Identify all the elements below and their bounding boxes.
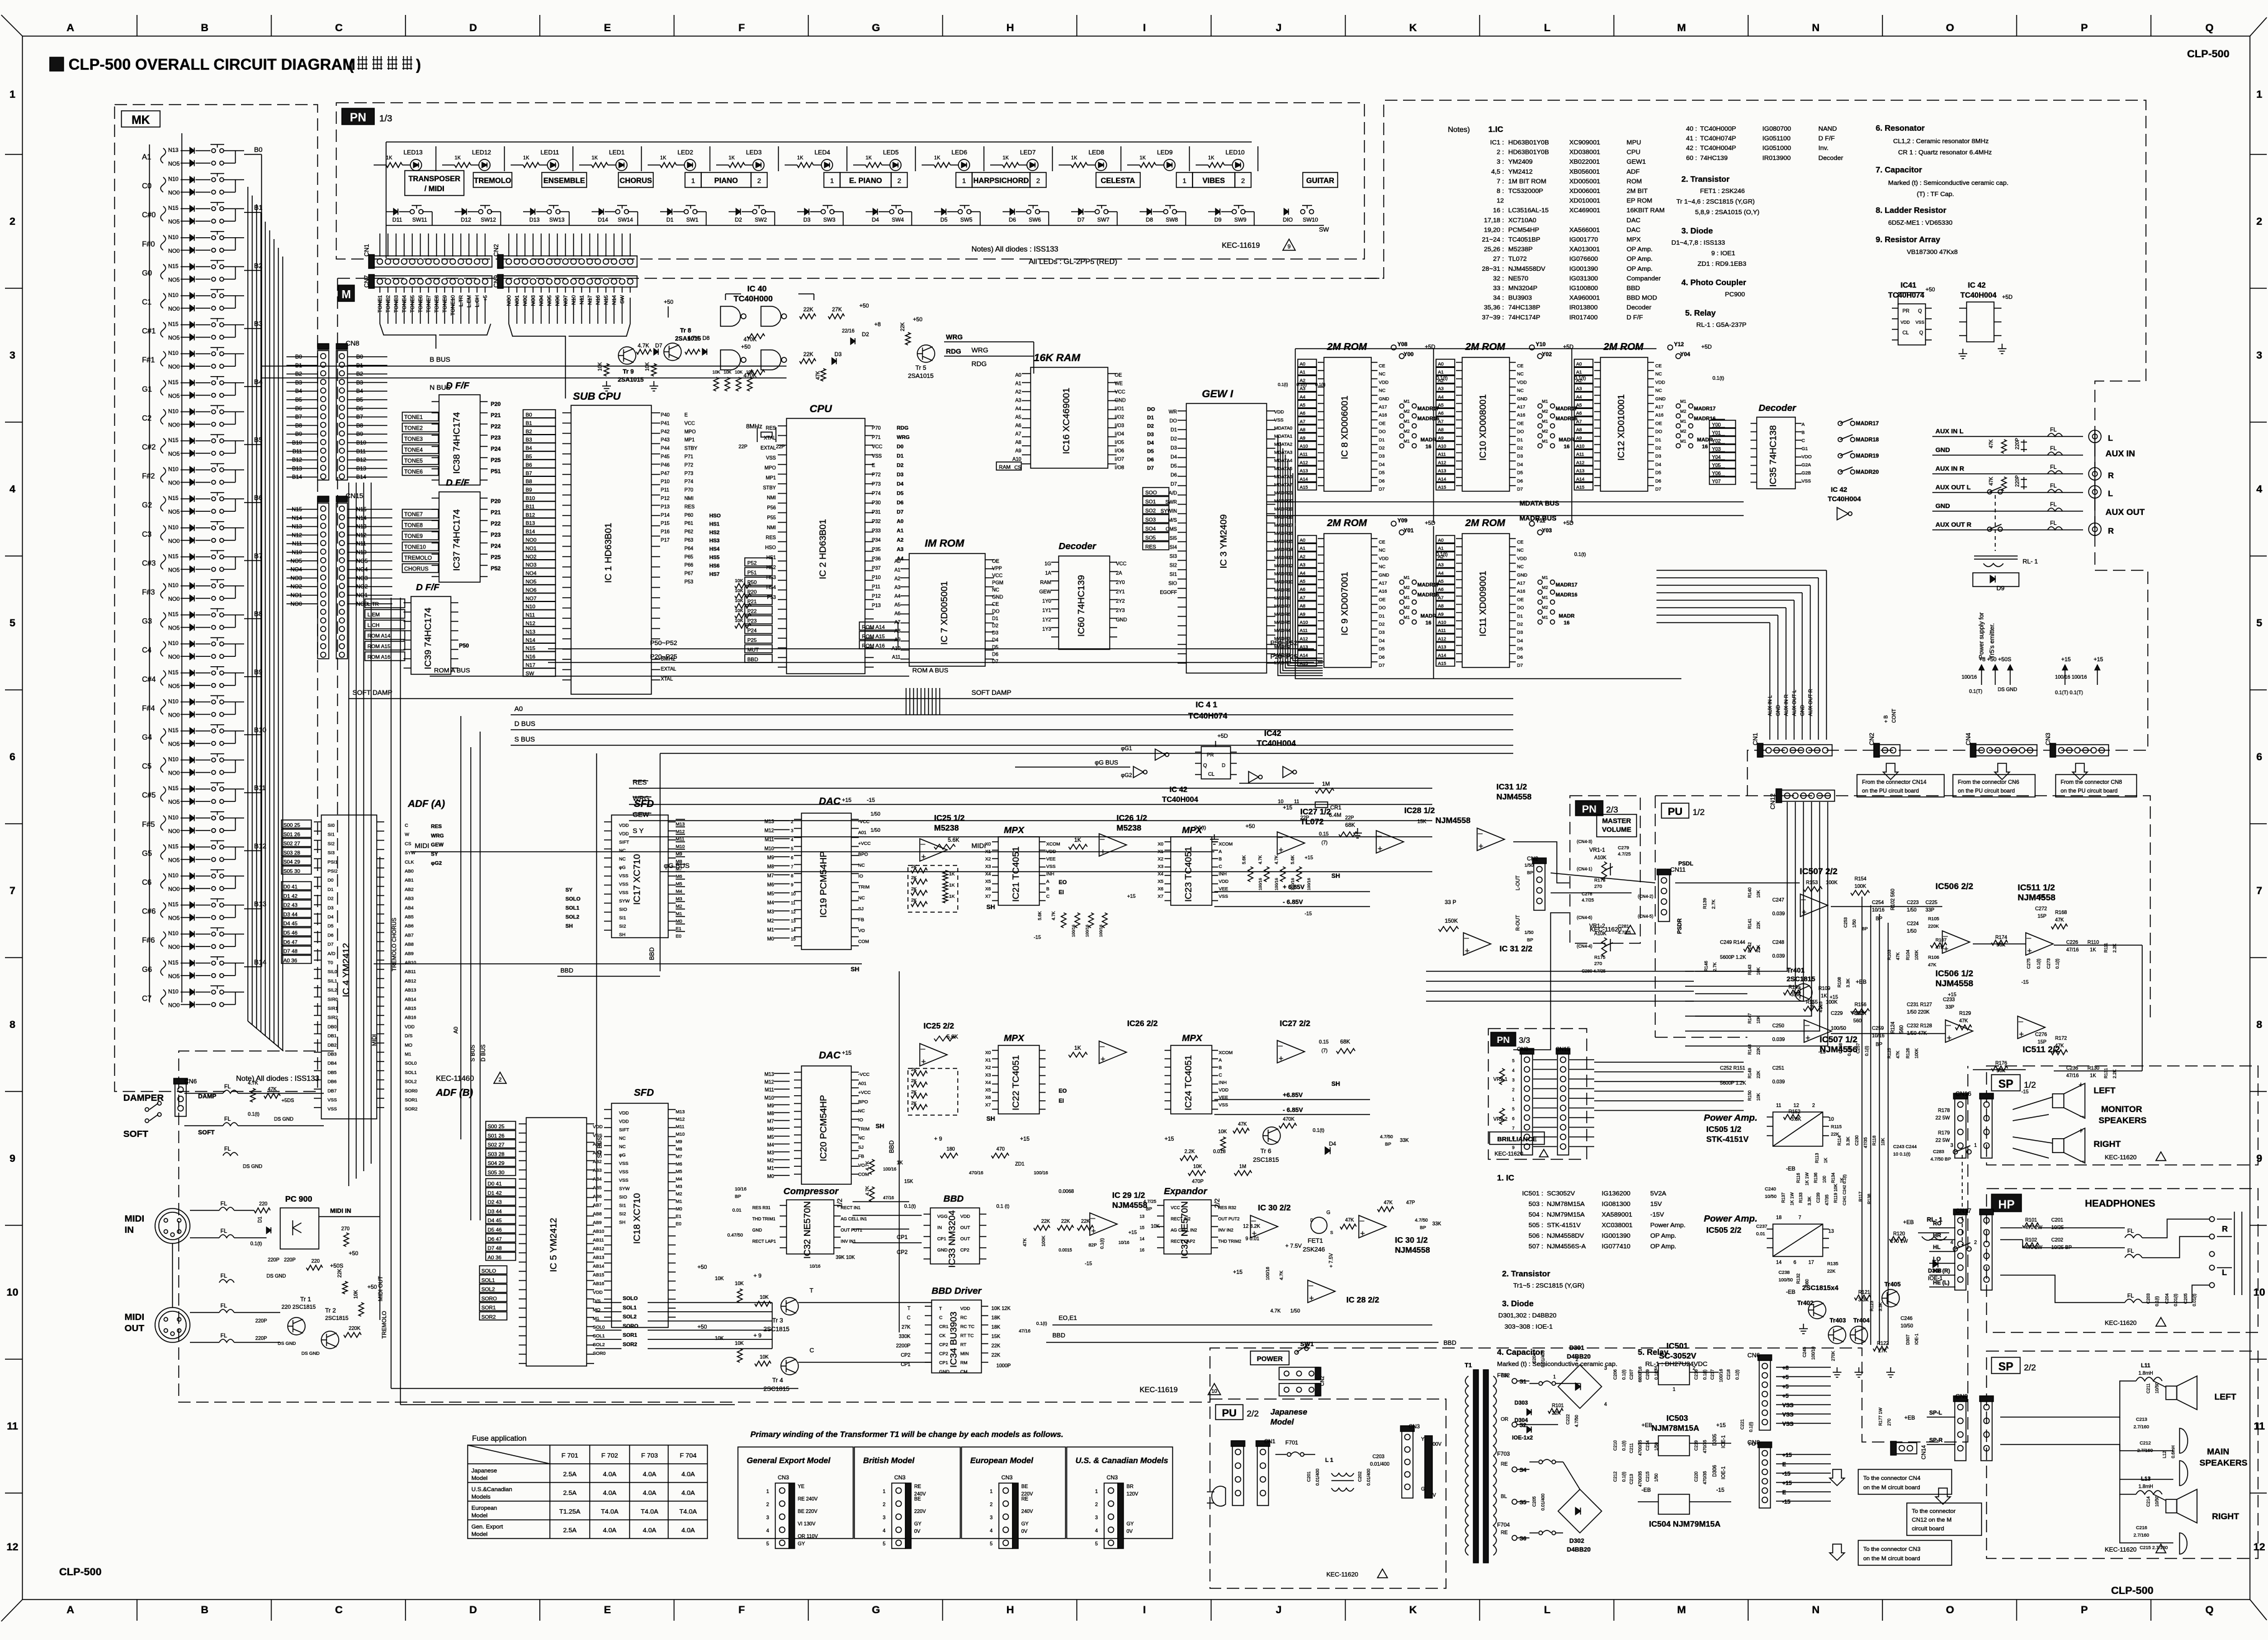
- svg-text:VSS: VSS: [1782, 1411, 1793, 1418]
- svg-text:D7 48: D7 48: [283, 948, 298, 954]
- svg-text:A9: A9: [1438, 611, 1443, 617]
- svg-text:MDATA2: MDATA2: [1274, 441, 1292, 447]
- svg-text:CLP-500: CLP-500: [59, 1566, 102, 1578]
- svg-text:M0: M0: [676, 918, 682, 924]
- svg-text:D3 44: D3 44: [488, 1208, 502, 1214]
- svg-text:DB1: DB1: [328, 1033, 337, 1039]
- svg-text:6: 6: [1512, 1117, 1514, 1121]
- svg-text:0.1(t): 0.1(t): [1574, 552, 1586, 557]
- svg-text:A11: A11: [1300, 451, 1308, 457]
- svg-text:–: –: [1377, 831, 1382, 840]
- svg-text:C258: C258: [1839, 1043, 1843, 1053]
- svg-text:KEC-11620: KEC-11620: [1590, 926, 1622, 933]
- svg-text:P34: P34: [872, 537, 881, 543]
- svg-text:R107: R107: [1935, 937, 1947, 943]
- svg-text:DB7: DB7: [328, 1088, 337, 1093]
- svg-text:CP2: CP2: [939, 1342, 948, 1347]
- svg-text:R143: R143: [1748, 964, 1752, 975]
- svg-text:2K: 2K: [911, 875, 917, 880]
- svg-text:CELESTA: CELESTA: [1100, 176, 1135, 185]
- svg-text:RL-1 : G5A-237P: RL-1 : G5A-237P: [1696, 321, 1747, 329]
- svg-text:P16: P16: [661, 529, 670, 535]
- svg-text:FB: FB: [858, 917, 864, 923]
- svg-text:100K: 100K: [1855, 884, 1866, 889]
- svg-text:OE: OE: [1379, 420, 1386, 426]
- svg-text:470/35: 470/35: [1703, 1471, 1708, 1484]
- svg-text:A11: A11: [892, 654, 900, 660]
- svg-text:7: 7: [2256, 885, 2262, 897]
- svg-text:M12: M12: [676, 1116, 685, 1122]
- svg-text:A17: A17: [1379, 404, 1387, 410]
- svg-text:NC: NC: [858, 1135, 865, 1141]
- svg-text:TONE6: TONE6: [404, 469, 423, 475]
- svg-text:5: 5: [883, 1541, 886, 1547]
- svg-text:A15: A15: [1576, 484, 1584, 490]
- svg-text:A0: A0: [514, 705, 522, 713]
- svg-text:2SC1815: 2SC1815: [1787, 976, 1815, 983]
- svg-text:–: –: [1100, 834, 1105, 843]
- svg-text:C: C: [1046, 893, 1050, 899]
- svg-text:D3: D3: [1517, 629, 1523, 635]
- svg-text:E0: E0: [676, 1221, 681, 1227]
- connector CN9: [1955, 1401, 1966, 1461]
- svg-text:DO: DO: [1169, 418, 1177, 424]
- svg-text:C203: C203: [1373, 1454, 1385, 1459]
- svg-text:D6 47: D6 47: [283, 939, 298, 945]
- svg-text:Power Amp.: Power Amp.: [1704, 1214, 1757, 1224]
- svg-text:OP Amp.: OP Amp.: [1627, 255, 1653, 263]
- svg-text:0.1(t): 0.1(t): [1622, 1370, 1627, 1380]
- svg-text:S03 28: S03 28: [488, 1151, 504, 1157]
- svg-text:Y01: Y01: [1404, 527, 1414, 534]
- svg-text:C246: C246: [1901, 1316, 1913, 1321]
- svg-text:RIGHT: RIGHT: [2212, 1511, 2239, 1521]
- svg-text:VSS: VSS: [619, 1169, 628, 1175]
- svg-text:VDD: VDD: [1274, 409, 1284, 415]
- svg-text:10K: 10K: [735, 1341, 744, 1346]
- svg-text:0.039: 0.039: [1772, 1037, 1785, 1042]
- svg-text:A11: A11: [1438, 628, 1446, 633]
- svg-text:12: 12: [1793, 1103, 1799, 1108]
- svg-text:SW10: SW10: [1303, 217, 1318, 223]
- svg-text:NMI: NMI: [767, 525, 776, 530]
- svg-text:SW6: SW6: [1029, 217, 1041, 223]
- svg-text:M12: M12: [764, 1080, 774, 1085]
- svg-text:A13: A13: [1576, 468, 1584, 474]
- svg-text:DAC: DAC: [1627, 226, 1641, 233]
- svg-text:13: 13: [1828, 1228, 1834, 1234]
- svg-text:7: 7: [1798, 1215, 1802, 1220]
- svg-text:XCOM: XCOM: [1219, 1050, 1233, 1055]
- svg-text:F 702: F 702: [602, 1452, 618, 1459]
- svg-text:2/2: 2/2: [1247, 1408, 1259, 1418]
- svg-text:C249 R144: C249 R144: [1720, 940, 1746, 945]
- svg-text:270: 270: [341, 1226, 350, 1232]
- svg-text:0.1(t): 0.1(t): [1749, 1422, 1754, 1432]
- svg-text:L-OUT: L-OUT: [1515, 875, 1521, 890]
- svg-text:A3: A3: [897, 546, 904, 552]
- svg-text:B5: B5: [526, 453, 532, 459]
- svg-text:DIO: DIO: [1283, 217, 1293, 223]
- button CHORUS: [618, 172, 653, 187]
- svg-text:47/16: 47/16: [2066, 947, 2079, 953]
- svg-text:IC33 NM3204: IC33 NM3204: [947, 1210, 958, 1268]
- svg-text:B: B: [201, 1604, 208, 1616]
- svg-text:TONE5: TONE5: [404, 458, 423, 464]
- svg-text:PR: PR: [1902, 308, 1909, 314]
- svg-text:2M ROM: 2M ROM: [1326, 518, 1368, 529]
- svg-text:4: 4: [791, 838, 793, 842]
- svg-text:D/S: D/S: [405, 1033, 413, 1039]
- svg-text:14: 14: [1776, 1260, 1782, 1265]
- svg-text:ROM A15: ROM A15: [862, 633, 885, 639]
- svg-text:P11: P11: [661, 488, 669, 493]
- svg-text:2: 2: [1812, 1103, 1815, 1108]
- svg-text:M12: M12: [764, 828, 774, 834]
- svg-text:+EB: +EB: [1642, 1422, 1652, 1428]
- svg-text:504 :: 504 :: [1529, 1211, 1543, 1218]
- svg-text:VSS: VSS: [1782, 1402, 1793, 1408]
- svg-text:220P: 220P: [284, 1257, 296, 1263]
- svg-text:N11: N11: [526, 612, 535, 618]
- svg-text:4: 4: [9, 483, 16, 495]
- svg-text:11: 11: [7, 1420, 18, 1432]
- PN 1/3 block boundary: [336, 103, 1364, 259]
- svg-text:3: 3: [767, 1515, 770, 1520]
- svg-text:8 :: 8 :: [1496, 187, 1504, 195]
- svg-text:CN16: CN16: [1955, 1091, 1972, 1098]
- PN1/3 bottom wire: [386, 225, 1324, 226]
- MASTER VOLUME label: [1597, 814, 1637, 837]
- svg-text:NO5: NO5: [168, 915, 180, 921]
- svg-text:G2A: G2A: [1802, 462, 1811, 468]
- svg-text:VDD: VDD: [1219, 1087, 1229, 1093]
- svg-text:IC35 74HC138: IC35 74HC138: [1768, 425, 1779, 487]
- svg-text:W: W: [405, 832, 410, 837]
- svg-text:D4: D4: [872, 217, 879, 223]
- svg-text:SOL1: SOL1: [481, 1277, 495, 1283]
- svg-text:XA960001: XA960001: [1569, 295, 1600, 302]
- svg-text:P64: P64: [684, 545, 694, 551]
- svg-text:B12: B12: [254, 842, 267, 850]
- svg-text:C215: C215: [1646, 1471, 1650, 1482]
- svg-text:TC40H000P: TC40H000P: [1700, 125, 1736, 133]
- svg-text:NC: NC: [1379, 547, 1386, 553]
- svg-text:BBD: BBD: [1443, 1340, 1457, 1347]
- svg-text:10K: 10K: [746, 370, 754, 375]
- connector CN1 on M board: [1762, 745, 1832, 756]
- svg-text:A5: A5: [1015, 415, 1021, 420]
- PN23 to PU wires: [1551, 873, 1655, 883]
- svg-text:TRANSPOSER: TRANSPOSER: [409, 174, 461, 183]
- svg-text:P13: P13: [661, 504, 670, 509]
- svg-text:A16: A16: [1379, 412, 1387, 418]
- svg-text:5.6K: 5.6K: [948, 837, 960, 843]
- svg-text:I: I: [1143, 1604, 1146, 1616]
- svg-text:X3: X3: [985, 864, 991, 869]
- svg-text:1/2: 1/2: [2024, 1080, 2036, 1090]
- svg-text:R110: R110: [2087, 940, 2099, 945]
- svg-text:P71: P71: [684, 454, 694, 459]
- svg-text:SI4: SI4: [1169, 545, 1178, 550]
- svg-text:AB4: AB4: [593, 1176, 602, 1182]
- svg-text:220P: 220P: [255, 1318, 267, 1324]
- svg-text:Compressor: Compressor: [783, 1186, 839, 1197]
- svg-text:CONT: CONT: [1891, 709, 1897, 723]
- svg-text:G: G: [872, 22, 880, 34]
- svg-text:SIO: SIO: [1168, 581, 1177, 587]
- svg-text:1K: 1K: [934, 155, 940, 161]
- svg-text:L.EM: L.EM: [367, 611, 380, 618]
- opamp IC507 1/2 NJM4556: [1804, 1020, 1831, 1042]
- svg-text:OUT PUT1: OUT PUT1: [841, 1228, 862, 1233]
- svg-text:LED2: LED2: [678, 149, 693, 156]
- svg-text:IC28 1/2: IC28 1/2: [1404, 806, 1435, 815]
- svg-text:C207: C207: [1630, 1369, 1634, 1380]
- svg-text:SYW: SYW: [405, 850, 416, 855]
- svg-text:10K: 10K: [1193, 1164, 1203, 1169]
- svg-text:220V: 220V: [914, 1509, 926, 1514]
- svg-text:+ B: + B: [1883, 715, 1889, 723]
- svg-text:Tr 8: Tr 8: [680, 328, 691, 334]
- svg-text:34 :: 34 :: [1493, 295, 1504, 302]
- svg-text:A8: A8: [1300, 603, 1305, 609]
- svg-text:AB6: AB6: [405, 923, 413, 929]
- svg-text:TONE1: TONE1: [404, 414, 423, 420]
- svg-text:NO5: NO5: [168, 741, 180, 747]
- svg-text:A12: A12: [1300, 459, 1308, 465]
- svg-text:P56: P56: [767, 505, 777, 511]
- MK left common vertical buses: [149, 144, 150, 1002]
- svg-text:1: 1: [1183, 177, 1186, 185]
- svg-text:13: 13: [1140, 1215, 1145, 1219]
- svg-text:SPEAKERS: SPEAKERS: [2199, 1458, 2247, 1468]
- svg-text:P71: P71: [872, 435, 881, 440]
- svg-text:1A: 1A: [1045, 570, 1051, 576]
- svg-text:I/O1: I/O1: [1115, 406, 1125, 412]
- svg-text:LED9: LED9: [1157, 149, 1173, 156]
- svg-text:VCC: VCC: [872, 444, 882, 450]
- svg-text:CN17: CN17: [1955, 1208, 1972, 1215]
- svg-text:1: 1: [883, 1489, 886, 1494]
- svg-text:M2: M2: [1404, 410, 1410, 414]
- svg-text:C: C: [1802, 438, 1805, 443]
- svg-text:5: 5: [1512, 1108, 1514, 1112]
- svg-text:S02 27: S02 27: [488, 1142, 504, 1148]
- svg-text:IC 30 1/2: IC 30 1/2: [1395, 1235, 1428, 1245]
- svg-text:47K: 47K: [268, 1086, 277, 1092]
- svg-text:Tr 2: Tr 2: [325, 1308, 336, 1314]
- wire bundle CN9 risers down into M board: [508, 298, 509, 324]
- connector CN17: [1955, 1214, 1966, 1290]
- svg-text:N10: N10: [168, 930, 179, 936]
- svg-text:NMI: NMI: [767, 495, 776, 501]
- svg-text:D4: D4: [1655, 461, 1661, 467]
- svg-text:M1: M1: [405, 1052, 411, 1057]
- svg-text:–: –: [2018, 1016, 2023, 1025]
- transistor Tr9 2SA1015: [618, 347, 636, 364]
- connector riser group center: [905, 688, 907, 715]
- svg-text:Models: Models: [471, 1494, 491, 1501]
- svg-text:IG081300: IG081300: [1602, 1200, 1630, 1208]
- svg-text:NO5: NO5: [168, 799, 180, 805]
- svg-text:AB13: AB13: [405, 987, 416, 993]
- svg-text:P67: P67: [684, 571, 694, 577]
- svg-text:A5: A5: [1438, 578, 1443, 584]
- svg-text:SH: SH: [876, 1123, 884, 1130]
- svg-text:XC469001: XC469001: [1569, 207, 1600, 214]
- svg-text:CL: CL: [1208, 771, 1215, 777]
- svg-text:G5: G5: [142, 849, 152, 857]
- svg-text:N15: N15: [168, 611, 179, 618]
- svg-text:C224: C224: [1907, 921, 1919, 926]
- svg-text:(T) : TF Cap.: (T) : TF Cap.: [1917, 191, 1954, 198]
- svg-text:F#5: F#5: [142, 820, 155, 829]
- svg-text:F#4: F#4: [142, 704, 155, 712]
- svg-text:P50: P50: [459, 643, 469, 649]
- svg-text:150K: 150K: [1445, 918, 1458, 924]
- svg-text:E: E: [684, 412, 687, 418]
- svg-text:DAC: DAC: [819, 796, 841, 807]
- svg-text:M4: M4: [767, 900, 775, 906]
- svg-text:100/16: 100/16: [1072, 925, 1076, 937]
- svg-text:P50~P52: P50~P52: [650, 639, 678, 647]
- svg-text:Q: Q: [2205, 1604, 2213, 1616]
- svg-text:FL: FL: [2050, 501, 2057, 507]
- svg-text:N15: N15: [168, 553, 179, 559]
- svg-text:47P: 47P: [1406, 1200, 1415, 1205]
- svg-text:NC: NC: [1379, 388, 1386, 394]
- svg-text:+6.85V: +6.85V: [1283, 1092, 1303, 1099]
- svg-text:M10: M10: [764, 846, 774, 852]
- svg-text:IC17 XC710: IC17 XC710: [632, 854, 643, 905]
- svg-text:P25: P25: [747, 637, 757, 643]
- svg-text:220P: 220P: [255, 1336, 267, 1341]
- svg-text:10K 12K: 10K 12K: [991, 1306, 1011, 1311]
- svg-text:4.7/50 BP: 4.7/50 BP: [1930, 1156, 1951, 1162]
- svg-text:Y02: Y02: [1542, 351, 1552, 357]
- svg-text:DAC: DAC: [1627, 217, 1641, 224]
- svg-text:KEC-11619: KEC-11619: [1140, 1385, 1178, 1394]
- svg-text:OP Amp.: OP Amp.: [1627, 246, 1653, 253]
- svg-text:C221: C221: [1741, 1419, 1745, 1430]
- svg-text:R: R: [2108, 526, 2114, 535]
- svg-text:M9: M9: [767, 855, 775, 860]
- svg-text:IC10 XD008001: IC10 XD008001: [1478, 394, 1488, 461]
- svg-text:MPX: MPX: [1627, 236, 1641, 243]
- svg-text:IG100800: IG100800: [1569, 285, 1598, 292]
- svg-text:VDD: VDD: [593, 1289, 603, 1295]
- svg-text:-15: -15: [867, 797, 875, 803]
- wire bundle IC31 outputs across: [1426, 971, 1694, 972]
- svg-text:U.S. & Canadian Models: U.S. & Canadian Models: [1075, 1456, 1168, 1465]
- svg-text:4: 4: [2256, 483, 2262, 495]
- svg-text:TC40H004P: TC40H004P: [1700, 144, 1736, 152]
- svg-text:1Y2: 1Y2: [1042, 617, 1052, 623]
- svg-text:MPX: MPX: [1182, 1033, 1203, 1044]
- svg-text:D F/F: D F/F: [446, 478, 470, 488]
- svg-text:AB3: AB3: [593, 1167, 602, 1173]
- svg-text:IC501: IC501: [1666, 1341, 1688, 1350]
- svg-text:SOL2: SOL2: [405, 1079, 417, 1085]
- svg-text:5: 5: [791, 847, 793, 852]
- svg-text:SOL2: SOL2: [565, 914, 579, 920]
- svg-text:10K: 10K: [353, 1289, 359, 1299]
- svg-text:470K: 470K: [1283, 1116, 1295, 1122]
- svg-text:+50: +50: [697, 1324, 707, 1330]
- svg-text:D6: D6: [1171, 473, 1178, 478]
- svg-text:2SC1815: 2SC1815: [325, 1315, 349, 1321]
- svg-text:–: –: [920, 1044, 925, 1053]
- connector CN8 power: [1759, 1447, 1770, 1508]
- svg-text:SOR2: SOR2: [623, 1341, 637, 1347]
- svg-text:IC26 2/2: IC26 2/2: [1127, 1019, 1158, 1028]
- svg-text:47K: 47K: [2055, 917, 2064, 923]
- svg-text:0.039: 0.039: [1772, 1079, 1785, 1085]
- svg-text:–: –: [1946, 1020, 1951, 1029]
- svg-text:K: K: [1409, 1604, 1417, 1616]
- svg-text:VDD: VDD: [405, 1024, 415, 1029]
- svg-text:BPO: BPO: [858, 852, 868, 857]
- connector CN2: [503, 256, 637, 267]
- diode D4: [1325, 1147, 1330, 1154]
- svg-text:Y00: Y00: [1712, 422, 1721, 428]
- svg-text:2M ROM: 2M ROM: [1603, 342, 1644, 352]
- svg-text:D: D: [470, 22, 477, 34]
- svg-text:XC909001: XC909001: [1569, 139, 1600, 146]
- svg-text:N13: N13: [526, 628, 536, 634]
- svg-text:4700/35: 4700/35: [1638, 1440, 1643, 1456]
- svg-text:BPO: BPO: [858, 1099, 868, 1105]
- svg-text:2M ROM: 2M ROM: [1465, 518, 1506, 529]
- svg-text:1K: 1K: [523, 155, 529, 161]
- extra parts cluster near CPU gap: [714, 377, 719, 391]
- svg-text:+50S: +50S: [330, 1263, 343, 1269]
- svg-text:ZD1 : RD9.1EB3: ZD1 : RD9.1EB3: [1698, 260, 1746, 268]
- svg-text:AB14: AB14: [593, 1263, 604, 1269]
- svg-text:SOLO: SOLO: [481, 1268, 496, 1274]
- svg-text:A10: A10: [1576, 443, 1584, 449]
- svg-text:P14: P14: [661, 512, 670, 518]
- svg-text:XCOM: XCOM: [1046, 841, 1061, 847]
- svg-text:100/50: 100/50: [1831, 1025, 1846, 1031]
- svg-text:0.1(t): 0.1(t): [250, 1241, 262, 1246]
- svg-text:N14: N14: [526, 637, 536, 643]
- svg-text:HS4: HS4: [709, 546, 720, 552]
- svg-text:CN12 on the M: CN12 on the M: [1912, 1517, 1952, 1524]
- svg-text:MP1: MP1: [766, 475, 777, 481]
- svg-text:8MHz: 8MHz: [746, 423, 762, 430]
- svg-text:D7: D7: [1147, 465, 1154, 471]
- svg-text:C#1: C#1: [142, 327, 156, 336]
- svg-text:0V: 0V: [914, 1529, 920, 1534]
- svg-text:D2: D2: [1517, 445, 1523, 451]
- svg-text:IG136200: IG136200: [1602, 1190, 1630, 1197]
- svg-text:AB4: AB4: [405, 905, 413, 910]
- svg-text:KEC-11620: KEC-11620: [2105, 1154, 2137, 1161]
- svg-text:15K: 15K: [1417, 819, 1427, 824]
- svg-text:MIDI: MIDI: [125, 1214, 144, 1224]
- svg-text:C248: C248: [1772, 940, 1785, 945]
- svg-text:SW8: SW8: [1166, 217, 1178, 223]
- svg-text:1K: 1K: [897, 1160, 903, 1166]
- svg-text:All LEDs : GL-2PP5 (RED): All LEDs : GL-2PP5 (RED): [1029, 257, 1117, 266]
- svg-text:S05 30: S05 30: [488, 1169, 504, 1176]
- svg-text:N10: N10: [168, 756, 179, 763]
- svg-text:AB7: AB7: [593, 1202, 602, 1208]
- svg-text:AB0: AB0: [593, 1141, 602, 1147]
- svg-text:220P: 220P: [2015, 475, 2020, 487]
